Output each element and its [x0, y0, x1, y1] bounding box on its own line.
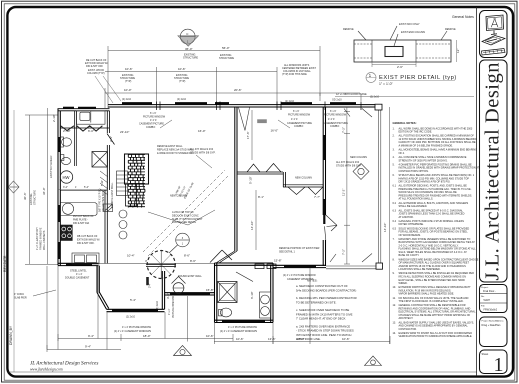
svg-text:(2) 4' x 4' CASEMENT WINDOWS: (2) 4' x 4' CASEMENT WINDOWS [114, 330, 151, 333]
right vertical dim [389, 107, 391, 344]
svg-text:6.1: 6.1 [393, 185, 397, 188]
svg-text:8'-6": 8'-6" [184, 254, 190, 258]
svg-text:PICTURE WINDOW: PICTURE WINDOW [172, 295, 175, 318]
slab edge dashed diagonals [143, 170, 225, 252]
svg-text:STRENGTH OF 3000 PSI AFTER 28: STRENGTH OF 3000 PSI AFTER 28 DAYS. [399, 159, 448, 162]
svg-text:4' x 4': 4' x 4' [168, 308, 171, 315]
svg-text:14.: 14. [393, 332, 397, 335]
section marker circle 3/1 [169, 233, 189, 253]
svg-text:2'-4": 2'-4" [109, 136, 113, 142]
svg-text:EDITION OF THE IRC CODE.: EDITION OF THE IRC CODE. [399, 131, 433, 134]
svg-text:(TYP): (TYP) [179, 80, 186, 83]
svg-text:STRUCTURE: STRUCTURE [183, 57, 198, 60]
svg-text:5'-10": 5'-10" [249, 176, 253, 184]
bath2 top wall [215, 263, 274, 265]
interior wall center vertical [235, 107, 237, 251]
bath1 sink oval [62, 138, 72, 146]
svg-text:LOCATIONS SHALL BE TEMPERED.: LOCATIONS SHALL BE TEMPERED. [399, 268, 441, 271]
living bottom wall [273, 265, 326, 267]
svg-text:ARCHITECT.: ARCHITECT. [399, 317, 414, 320]
svg-text:No:: No: [481, 296, 485, 298]
svg-text:11.: 11. [393, 297, 397, 300]
bath1 interior wall [75, 111, 77, 166]
sheet number box [480, 350, 508, 374]
svg-text:ALL MONO/STEEL BEAMS SHALL HAV: ALL MONO/STEEL BEAMS SHALL HAVE A MINIMU… [399, 149, 478, 152]
stove burners [62, 227, 66, 231]
svg-text:STUDS WITH 5/8 GYP.: STUDS WITH 5/8 GYP. [336, 164, 362, 167]
svg-text:14'-10": 14'-10" [250, 221, 254, 230]
svg-text:(2) 2x10: (2) 2x10 [126, 316, 136, 319]
entry door swing top wall [239, 108, 250, 131]
svg-text:4' x 4' PICTURE WINDOW: 4' x 4' PICTURE WINDOW [228, 326, 258, 329]
svg-text:6.3: 6.3 [393, 209, 397, 212]
svg-text:DRY 2X10 GRADE HAVING A FB OF: DRY 2X10 GRADE HAVING A FB OF 875 PSI. [399, 181, 451, 184]
svg-text:56'-0": 56'-0" [222, 46, 230, 50]
kitchen east wall [105, 190, 107, 263]
pier inner column rect [385, 47, 403, 57]
bath1 toilet [61, 157, 70, 164]
top exterior wall [108, 105, 382, 107]
svg-text:NEW COLUMN: NEW COLUMN [350, 156, 367, 159]
svg-text:EXIST INFO ONLY: EXIST INFO ONLY [399, 23, 420, 26]
floor plane line [335, 96, 474, 98]
svg-text:VERIFICATION PRIOR TO FABRICAT: VERIFICATION PRIOR TO FABRICATION WHERE … [399, 335, 473, 338]
stove dark box [61, 225, 73, 241]
angled entry walls above bath2 [210, 250, 232, 263]
svg-text:36'-0": 36'-0" [42, 187, 46, 195]
dim ext lines [187, 296, 189, 342]
bath1 mid wall horizontal [60, 127, 109, 129]
svg-text:GENERAL NOTES:: GENERAL NOTES: [393, 121, 417, 125]
svg-text:(TYP) FOR THIS SIDE: (TYP) FOR THIS SIDE [282, 73, 307, 76]
bottom dim line 1 [58, 338, 233, 340]
left bay wall down [97, 266, 99, 293]
porch deck right edge [379, 105, 381, 269]
svg-text:3'-4": 3'-4" [149, 283, 152, 288]
corner pier box bottom [376, 263, 383, 269]
svg-text:9'-4": 9'-4" [85, 345, 91, 349]
svg-text:NOTED OTHERWISE.: NOTED OTHERWISE. [399, 223, 425, 226]
svg-text:8'-1": 8'-1" [258, 195, 264, 199]
kitchen top pass wall [60, 190, 107, 192]
porch deck line [99, 263, 215, 265]
bath1 east wall lower [107, 145, 109, 190]
svg-text:13'-6": 13'-6" [268, 337, 276, 341]
svg-text:1.: 1. [393, 127, 395, 130]
wing wall window segs [323, 135, 325, 160]
svg-text:5'-4": 5'-4" [84, 186, 89, 189]
svg-text:J.L. Architectural Design: J.L. Architectural Design [482, 63, 504, 281]
stair closet x-box [92, 152, 108, 168]
porch deck bottom edge [326, 266, 381, 269]
svg-text:14'-10": 14'-10" [383, 223, 387, 232]
svg-text:9.: 9. [393, 272, 395, 275]
svg-text:10'-6": 10'-6" [125, 67, 133, 71]
bath2 toilet [220, 308, 231, 317]
svg-text:REV.DATE: REV.DATE [3, 255, 7, 272]
svg-text:5/4s DECKING BOARDS (PER CONTR: 5/4s DECKING BOARDS (PER CONTRACTOR) [296, 288, 356, 292]
top wall window units [122, 102, 356, 105]
svg-text:WIRED.: WIRED. [399, 282, 408, 285]
svg-text:6'-10": 6'-10" [250, 291, 254, 299]
svg-text:7' CLEAR HEAD HT. AT END OF DE: 7' CLEAR HEAD HT. AT END OF DECK [296, 317, 346, 321]
svg-text:(2) 2x10: (2) 2x10 [156, 300, 159, 310]
bath2 bottom wall [215, 320, 274, 322]
bottom triangle marker 2 [365, 356, 382, 366]
pier dim 12 [456, 40, 458, 62]
svg-text:8.: 8. [393, 258, 395, 261]
svg-text:VAPOR BARRIERS SHALL FACE HEAT: VAPOR BARRIERS SHALL FACE HEATED SIDE. [399, 293, 455, 296]
bottom dim line 2 [47, 349, 121, 351]
svg-text:Drwg + Date/Plan: Drwg + Date/Plan [482, 324, 501, 327]
project name/address box [480, 317, 508, 347]
door chevron d [308, 187, 323, 195]
interior hall wall A [237, 172, 283, 174]
svg-text:REMOVE EXIST WALL: REMOVE EXIST WALL [111, 182, 114, 208]
svg-text:6.2: 6.2 [393, 202, 397, 205]
svg-text:STRUCTURE: STRUCTURE [33, 190, 36, 205]
kitchen dim line [58, 189, 108, 191]
svg-text:GD 2x10: GD 2x10 [332, 99, 342, 102]
project fields box [480, 285, 508, 313]
leaders [358, 31, 366, 40]
living leader [196, 155, 212, 168]
door chevron a [247, 164, 260, 172]
svg-text:SHALL BE GALVANIZED.: SHALL BE GALVANIZED. [399, 205, 428, 208]
svg-text:REMOVE: REMOVE [445, 28, 456, 31]
svg-text:20'-6": 20'-6" [234, 88, 242, 92]
svg-text:8'-6": 8'-6" [190, 259, 196, 263]
svg-text:(2) 4' x 4' CASEMENT WINDOWS: (2) 4' x 4' CASEMENT WINDOWS [220, 330, 257, 333]
svg-text:(2) 2x10: (2) 2x10 [122, 98, 132, 101]
round exist wall column [173, 283, 184, 294]
svg-text:3'-0": 3'-0" [166, 293, 170, 299]
svg-text:FFW/16x8x2: FFW/16x8x2 [484, 309, 498, 312]
svg-text:1" = 1'-0": 1" = 1'-0" [379, 82, 394, 86]
bath2 vanity [260, 292, 271, 318]
logo: computer monitor [486, 15, 504, 35]
bottom triangle marker 1 [174, 346, 192, 356]
svg-text:CONTRACTOR.: CONTRACTOR. [399, 328, 418, 331]
left wing top wall [58, 109, 110, 111]
footer separator line [9, 371, 477, 373]
door chevron b [266, 164, 281, 173]
svg-text:2'-10": 2'-10" [63, 129, 71, 133]
bottom wall dark segs [284, 265, 316, 267]
svg-text:30'-6": 30'-6" [23, 192, 27, 200]
svg-text:6.: 6. [393, 174, 395, 177]
svg-text:A MINIMUM OF 3-6 BELOW FINISHE: A MINIMUM OF 3-6 BELOW FINISHED GRADE. [399, 145, 454, 148]
kitchen bottom window seg [66, 263, 92, 265]
logo box [480, 11, 508, 58]
pier detail dim 2-6 [372, 64, 416, 66]
interior leader arrows [148, 212, 188, 225]
title block separator line [476, 7, 478, 376]
svg-text:AT ALL FOUNDATION WALLS.: AT ALL FOUNDATION WALLS. [399, 198, 434, 201]
svg-text:4' 4' 4': 4' 4' 4' [291, 118, 298, 121]
dim line second tier [105, 71, 277, 73]
svg-text:EXIST PIER DETAIL (typ): EXIST PIER DETAIL (typ) [379, 75, 457, 81]
svg-text:10'-0": 10'-0" [124, 88, 132, 92]
svg-text:& WIDE DOOR TO SHARED DIN: & WIDE DOOR TO SHARED DIN [157, 152, 194, 155]
door chevron c [288, 187, 305, 195]
mid vertical dim [251, 110, 253, 160]
pier detail title [366, 73, 457, 87]
svg-text:10'-6": 10'-6" [236, 337, 244, 341]
island cabinets [72, 253, 99, 264]
bottom wall window boxes [255, 264, 276, 269]
svg-text:2.: 2. [393, 135, 395, 138]
spiral stair dashed circle [147, 251, 175, 279]
stair treads [117, 171, 128, 196]
bath1 east wall [107, 111, 109, 133]
svg-text:EXIST ROOF LINE.: EXIST ROOF LINE. [296, 337, 321, 341]
svg-text:PICTURE WINDOW: PICTURE WINDOW [143, 115, 166, 118]
svg-text:STRUCTURE: STRUCTURE [219, 57, 234, 60]
right wing left wall [323, 107, 325, 215]
svg-text:Project:: Project: [481, 286, 489, 289]
svg-text:REMOVE: REMOVE [343, 28, 354, 31]
svg-text:15'-8": 15'-8" [274, 259, 282, 263]
svg-text:7'-2": 7'-2" [342, 249, 346, 255]
svg-text:16'-0": 16'-0" [198, 129, 206, 133]
pier bar outline [354, 40, 451, 62]
bath1 door diagonal [107, 134, 115, 145]
bay right wall up [162, 271, 164, 309]
svg-text:NEW COLUMN: NEW COLUMN [295, 177, 312, 180]
interior hall wall B [283, 185, 323, 187]
bay bottom window [112, 309, 158, 311]
svg-text:DIN & 5/8" OFF.: DIN & 5/8" OFF. [77, 242, 95, 245]
svg-text:NEW COLUMN: NEW COLUMN [170, 195, 187, 198]
svg-text:7'-2": 7'-2" [342, 127, 346, 133]
svg-text:SLAB PIER: SLAB PIER [14, 296, 27, 299]
svg-text:OF WOOD BEAMS.: OF WOOD BEAMS. [399, 234, 422, 237]
bath2 door diagonal [236, 272, 253, 282]
bath1 vanity counter [77, 111, 106, 124]
svg-text:COMBO: COMBO [146, 126, 155, 129]
svg-text:7'-7": 7'-7" [314, 195, 320, 199]
svg-text:16'-0": 16'-0" [271, 129, 279, 133]
wing door swing [325, 215, 338, 240]
svg-text:DOUBLE CASEMENT: DOUBLE CASEMENT [65, 277, 90, 280]
closet zigzag left [61, 126, 74, 131]
svg-text:STUDS WITH 5/8 GYP.: STUDS WITH 5/8 GYP. [190, 151, 216, 154]
dim line third tier [105, 92, 360, 94]
svg-text:Sheet: Sheet [482, 352, 489, 356]
svg-text:(2) 2x10: (2) 2x10 [370, 96, 380, 99]
svg-text:ROUND EXIST WALL: ROUND EXIST WALL [178, 275, 202, 278]
svg-text:17'-6": 17'-6" [246, 131, 250, 139]
logo: drafting board [482, 36, 506, 56]
stool circles [119, 210, 127, 218]
bath2 bottom window [222, 320, 265, 322]
interior wall E vertical [283, 172, 285, 187]
svg-text:12.: 12. [393, 304, 397, 307]
svg-text:TO BE DETERMINED ON SITE.: TO BE DETERMINED ON SITE. [296, 300, 337, 304]
svg-text:DIN & 5/8" DIA: DIN & 5/8" DIA [73, 222, 90, 225]
top wall column ticks [157, 102, 362, 111]
logo: keyboard [482, 49, 506, 56]
svg-text:PICTURE WINDOW: PICTURE WINDOW [324, 113, 347, 116]
left exterior wall [58, 109, 60, 266]
svg-text:23'-10": 23'-10" [120, 130, 129, 134]
svg-text:ON KITCHEN SIDE: ON KITCHEN SIDE [102, 190, 105, 212]
bath2 right wall [271, 263, 273, 323]
svg-text:6.4: 6.4 [393, 220, 397, 223]
leader lines top-left note [95, 76, 113, 103]
svg-text:COMBO: COMBO [330, 125, 339, 128]
svg-text:General Notes: General Notes [452, 15, 474, 19]
svg-text:1: 1 [494, 354, 504, 376]
left bay diagonal [97, 292, 109, 309]
bottom dim right [214, 341, 390, 343]
svg-text:www.jlarchdesign.com: www.jlarchdesign.com [30, 367, 63, 371]
corner brace diagonals [330, 109, 372, 263]
dim line 56'-0" [108, 50, 320, 52]
svg-text:3'-4": 3'-4" [63, 186, 68, 189]
svg-text:18'-0": 18'-0" [143, 334, 151, 338]
svg-text:5x487: 5x487 [484, 299, 491, 302]
svg-text:6'-0": 6'-0" [88, 129, 94, 133]
left wing bottom wall [58, 263, 99, 265]
svg-text:SEE DETAIL 1: SEE DETAIL 1 [279, 250, 295, 253]
svg-text:15'-8": 15'-8" [206, 288, 214, 292]
svg-text:EACH LEVEL, SHALL BE INTERCONN: EACH LEVEL, SHALL BE INTERCONNECTED AND … [399, 279, 466, 282]
svg-text:11'-2": 11'-2" [342, 189, 346, 196]
kitchen sink circle [62, 203, 73, 214]
svg-text:DRAWN_BY: DRAWN_BY [9, 325, 13, 345]
svg-text:PICTURE WINDOW: PICTURE WINDOW [288, 113, 311, 116]
svg-text:COLUMN (TYP): COLUMN (TYP) [87, 72, 105, 75]
kitchen counter [60, 203, 97, 216]
svg-text:AT ANCHOR.: AT ANCHOR. [399, 216, 414, 219]
svg-text:OF 4.: OF 4. [399, 152, 406, 155]
svg-text:Project Name/Address:: Project Name/Address: [482, 320, 505, 323]
svg-text:5'-4": 5'-4" [130, 298, 136, 302]
svg-text:(2) 4' x 4' PICTURE WINDOW: (2) 4' x 4' PICTURE WINDOW [283, 274, 316, 277]
svg-text:12' +/- MDX FLOOR PLANE: 12' +/- MDX FLOOR PLANE [336, 93, 367, 96]
svg-text:10'-6": 10'-6" [342, 337, 350, 341]
svg-text:4' 4' 4': 4' 4' 4' [150, 119, 157, 122]
interior wall stub to bath2 [216, 251, 237, 263]
svg-text:4' 4' 4': 4' 4' 4' [328, 118, 335, 121]
corner pier box top [375, 104, 382, 110]
svg-text:File:: File: [481, 306, 486, 308]
svg-text:EXIST WD VENEER: EXIST WD VENEER [50, 155, 53, 178]
svg-text:COMBO: COMBO [294, 125, 303, 128]
bath2 left wall [215, 263, 217, 323]
svg-text:DIN & 5/8" OFF: DIN & 5/8" OFF [86, 65, 103, 68]
gray column block [257, 119, 267, 123]
svg-text:Final Floor...: Final Floor... [483, 290, 496, 293]
svg-text:CONTRACTORS OPTION.: CONTRACTORS OPTION. [399, 170, 430, 173]
svg-text:JL Architectural Design Servic: JL Architectural Design Services [30, 361, 98, 367]
svg-text:3.: 3. [393, 149, 395, 152]
lower-left porch wall [165, 293, 215, 295]
svg-text:9'-4": 9'-4" [88, 334, 94, 338]
left diamond marker [8, 181, 19, 193]
svg-text:HOUSE) SEE DETAIL: HOUSE) SEE DETAIL [172, 221, 197, 224]
svg-text:10'-6": 10'-6" [206, 334, 214, 338]
svg-text:HW: HW [63, 175, 70, 180]
svg-text:10'-4": 10'-4" [127, 254, 135, 258]
svg-text:(TYP): (TYP) [125, 80, 132, 83]
svg-text:EXIST END COLUMN: EXIST END COLUMN [401, 31, 425, 34]
svg-text:36'-0": 36'-0" [185, 47, 193, 51]
svg-text:WALL CABINETS: WALL CABINETS [43, 230, 46, 250]
title vertical text [480, 60, 508, 282]
svg-text:2'-10": 2'-10" [52, 114, 56, 122]
svg-text:4' x 4' PICTURE WINDOW: 4' x 4' PICTURE WINDOW [122, 326, 152, 329]
svg-text:4.: 4. [393, 156, 395, 159]
left margin inner line [13, 110, 15, 372]
pantry hatch box [104, 204, 113, 212]
svg-text:5.: 5. [393, 163, 395, 166]
svg-text:5'-11": 5'-11" [101, 180, 104, 186]
svg-text:6.5: 6.5 [393, 227, 397, 230]
svg-text:10'-6": 10'-6" [178, 67, 186, 71]
svg-text:7.: 7. [393, 238, 395, 241]
wing inner dim line [346, 107, 348, 264]
north compass [178, 29, 199, 46]
porch wall window [170, 293, 210, 295]
svg-text:BASE OF CAVITY.: BASE OF CAVITY. [399, 254, 420, 257]
left wing top windows [63, 107, 74, 109]
svg-text:2'-6": 2'-6" [397, 65, 403, 69]
svg-text:10.: 10. [393, 286, 397, 289]
svg-text:(2) 2x10: (2) 2x10 [177, 98, 187, 101]
bath2 shower x-box [218, 282, 238, 303]
svg-text:12": 12" [456, 49, 460, 53]
wall seg below spiral [146, 264, 176, 266]
svg-text:THE FIRST FLOOR DECK IS COMPLE: THE FIRST FLOOR DECK IS COMPLETELY INSTA… [399, 300, 464, 303]
svg-text:NOTES:: NOTES: [307, 279, 318, 283]
left wall window segs [58, 205, 60, 222]
left vertical dim lines [29, 115, 31, 264]
closet zigzag mid [77, 126, 103, 131]
bay bottom wall [107, 309, 165, 311]
right wing diamond window marker [353, 164, 369, 180]
hw heater circle [60, 171, 72, 183]
svg-text:13.: 13. [393, 321, 397, 324]
